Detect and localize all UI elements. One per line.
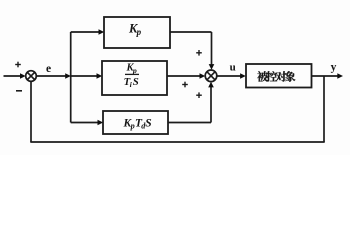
svg-text:u: u — [230, 62, 236, 74]
wire u from S2 to plant block — [217, 73, 246, 79]
wire feedback from node after plant down and left to S1 — [30, 76, 324, 142]
svg-text:S: S — [145, 117, 151, 129]
summing junction S1 — [26, 71, 37, 82]
wire branch to D block — [71, 120, 104, 126]
minus sign at summer S1 feedback input — [16, 90, 22, 92]
svg-text:p: p — [136, 27, 142, 37]
wire input arrow into summer S1 — [4, 73, 26, 79]
svg-text:p: p — [130, 122, 135, 131]
branch node vertical wire — [70, 32, 72, 123]
svg-text:y: y — [331, 61, 337, 73]
label Kp/TiS in I block : denominator — [124, 76, 139, 89]
label KpTdS in D block — [123, 117, 152, 130]
wire y output from plant — [312, 73, 344, 79]
label Kp/TiS in I block : numerator — [126, 63, 137, 75]
svg-text:e: e — [46, 63, 51, 75]
wire branch to I block — [71, 73, 103, 79]
summing junction S2 — [205, 70, 217, 82]
wire branch to P block — [71, 29, 105, 35]
plus sign at summer S2 top input — [196, 50, 202, 56]
block P gain Kp — [104, 17, 170, 48]
block I integrator Kp/TiS — [102, 61, 167, 95]
plus sign at summer S1 input — [15, 62, 21, 68]
svg-text:p: p — [132, 66, 137, 75]
plant label glyph 控 — [266, 71, 277, 82]
wire I block output to summer S2 left — [167, 73, 205, 79]
fraction bar in I block — [125, 73, 139, 75]
label Kp in P block — [128, 22, 142, 38]
wire D block output to summer S2 bottom — [168, 82, 214, 123]
block D derivative KpTdS — [103, 111, 168, 134]
plant label glyph 被 — [257, 71, 268, 82]
wire e from S1 to branch node — [36, 73, 71, 79]
plant label glyph 对 — [276, 71, 287, 82]
plus sign at summer S2 left input — [182, 82, 188, 88]
wire P block output to summer S2 top — [170, 32, 214, 70]
svg-text:S: S — [133, 76, 139, 88]
block plant 被控对象 — [246, 64, 312, 88]
plant label glyph 象 — [285, 71, 296, 82]
plus sign at summer S2 bottom input — [196, 92, 202, 98]
